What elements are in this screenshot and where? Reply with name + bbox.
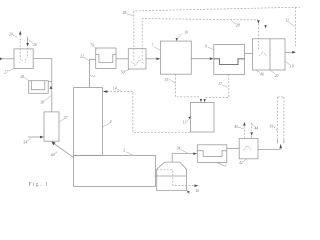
wire box10 to HX8 bbox=[191, 58, 210, 60]
leader 10 bbox=[178, 33, 183, 38]
box12 spray dashes bbox=[259, 52, 266, 56]
arrow into HX34 left bbox=[193, 152, 197, 155]
arrow down label10 into box10 top bbox=[176, 38, 178, 41]
svg-text:50: 50 bbox=[121, 71, 125, 75]
box 12 separator bbox=[253, 39, 286, 70]
tank bbox=[157, 162, 187, 190]
arrow into box10 left bbox=[157, 58, 161, 61]
box 27 spray chamber bbox=[14, 49, 33, 69]
controller box 13 bbox=[190, 102, 214, 132]
wire boxE outlet to riser duct bbox=[258, 148, 281, 150]
heat exchanger 8 bbox=[214, 45, 245, 75]
arrow down control17 onto controller 13 bbox=[204, 99, 206, 102]
svg-text:28: 28 bbox=[236, 24, 240, 28]
svg-text:28: 28 bbox=[20, 75, 24, 79]
leader 8 bbox=[208, 47, 214, 50]
arrow into HX8 left bbox=[210, 57, 214, 60]
box27 spray V bbox=[19, 57, 28, 63]
svg-text:15: 15 bbox=[164, 78, 168, 82]
leader tank corner bbox=[187, 190, 191, 194]
leader 50 bbox=[125, 69, 131, 71]
boxE top inlet dashes bbox=[251, 123, 253, 139]
leader 15 bbox=[169, 79, 176, 84]
leader 40 bbox=[238, 127, 244, 129]
svg-text:13: 13 bbox=[183, 120, 187, 124]
arrow down control15 onto controller 13 bbox=[200, 99, 202, 102]
leader 46 bbox=[256, 70, 260, 72]
wire HX8 to box 12 bbox=[245, 53, 253, 55]
leader 27 bbox=[8, 69, 14, 71]
wire box12 outlet 19 bbox=[285, 51, 292, 53]
svg-text:42: 42 bbox=[239, 161, 243, 165]
riser duct dashed walls bbox=[278, 97, 284, 139]
leader 17 bbox=[222, 85, 227, 88]
riser duct solid stubs bbox=[278, 139, 284, 143]
leader 26 bbox=[29, 39, 33, 43]
svg-text:14: 14 bbox=[113, 86, 117, 90]
arrow on tank corner leader bbox=[187, 190, 190, 193]
dashed control 17 from HX8 bottom to controller 13 bbox=[205, 75, 229, 98]
svg-text:20: 20 bbox=[9, 33, 13, 37]
svg-text:24: 24 bbox=[91, 74, 95, 78]
leader 4 bbox=[103, 123, 110, 126]
arrow up boxE outlet 40 bbox=[243, 122, 246, 126]
svg-text:46: 46 bbox=[260, 73, 264, 77]
arrow up into riser duct bbox=[279, 144, 282, 149]
box27 spray line 20 bbox=[19, 35, 21, 57]
leader 60 bbox=[55, 152, 58, 154]
leader 20b bbox=[270, 70, 275, 74]
dashed control 15 from box10 bottom to controller 13 bbox=[175, 74, 200, 97]
arrow down rail28b into box12 bbox=[257, 20, 260, 24]
dashed tick near label 19b bbox=[274, 127, 277, 131]
leader 14 bbox=[117, 89, 121, 91]
svg-text:4: 4 bbox=[110, 120, 112, 124]
leader 28b bbox=[231, 20, 236, 24]
svg-text:10: 10 bbox=[184, 31, 188, 35]
wire box27 to HX18 and column 16 bbox=[33, 59, 52, 112]
leader 57 bbox=[60, 119, 65, 122]
svg-text:54: 54 bbox=[23, 141, 27, 145]
box27 spray line 26 bbox=[27, 48, 29, 57]
arrow down boxE inlet 44 bbox=[250, 132, 253, 136]
leader 28a bbox=[127, 14, 134, 17]
arrow outlet right of box12 bbox=[292, 51, 296, 54]
wire HX34 to box E bbox=[227, 148, 239, 150]
svg-text:Fig. 1: Fig. 1 bbox=[29, 181, 49, 187]
dashed control 14 controller 13 to duct A bbox=[108, 91, 191, 132]
arrow inlet 26 down bbox=[26, 43, 29, 47]
duct A bbox=[74, 88, 103, 156]
wire arrow into column 16 left bbox=[28, 136, 40, 138]
svg-text:34: 34 bbox=[177, 147, 181, 151]
leader 19 bbox=[285, 62, 290, 65]
wire duct A top to HX70 bbox=[90, 59, 96, 87]
box 10 bbox=[160, 41, 191, 74]
boxE spray dashes bbox=[244, 146, 252, 151]
box B bbox=[74, 156, 156, 187]
svg-text:17: 17 bbox=[218, 82, 223, 86]
wire diagonal 60 from column 16 to box B bbox=[53, 143, 74, 158]
svg-text:8: 8 bbox=[205, 45, 207, 49]
leader hx18 label bbox=[24, 77, 28, 80]
column 16 bbox=[44, 112, 59, 141]
dashed drop into box12 bbox=[257, 24, 259, 52]
svg-text:57: 57 bbox=[64, 116, 69, 120]
heat exchanger 34 bbox=[197, 145, 227, 163]
leader 22 bbox=[84, 57, 89, 61]
wire feed line into box 27 bbox=[0, 58, 14, 60]
svg-text:28: 28 bbox=[123, 11, 127, 15]
wire tank top to HX34 bbox=[172, 154, 193, 163]
leader 18 bbox=[44, 96, 51, 102]
arrow up on pipe to HX18 bbox=[50, 86, 53, 89]
box E bbox=[239, 138, 258, 158]
arrow on leader into controller 13 left bbox=[188, 116, 191, 119]
svg-text:22: 22 bbox=[80, 55, 84, 59]
box 30 bbox=[128, 49, 146, 69]
svg-text:44: 44 bbox=[254, 127, 258, 131]
leader 7 bbox=[154, 47, 160, 51]
svg-text:26: 26 bbox=[33, 43, 37, 47]
leader 42 bbox=[243, 159, 247, 162]
leader 70 bbox=[94, 46, 98, 50]
tank interior dashed level bbox=[157, 170, 194, 186]
leader 54 bbox=[27, 138, 31, 141]
inlet 26 solid drop line bbox=[27, 37, 29, 43]
floating arrow down above box12 bbox=[264, 25, 267, 28]
arrow diagonal into column16 bottom bbox=[52, 141, 56, 145]
leader 13 bbox=[187, 119, 189, 122]
leader 12 bbox=[289, 22, 295, 26]
box30 interior zigzag bbox=[131, 60, 143, 66]
svg-text:19: 19 bbox=[269, 124, 273, 128]
tank liquid level wire from box B bbox=[154, 175, 186, 177]
leader 44 bbox=[251, 123, 255, 128]
heat exchanger 18 bbox=[29, 81, 49, 94]
leader duct stream label bbox=[90, 75, 92, 76]
inlet wedge at left edge bbox=[0, 57, 2, 60]
arrow right tank vapor dashed bbox=[194, 184, 198, 187]
arrow into column16 left bbox=[40, 136, 44, 139]
svg-text:70: 70 bbox=[90, 44, 94, 48]
svg-text:12: 12 bbox=[285, 19, 289, 23]
heat exchanger 70 bbox=[96, 48, 116, 69]
svg-text:2: 2 bbox=[123, 149, 125, 153]
arrow outlet 20 up bbox=[19, 31, 22, 35]
svg-text:60: 60 bbox=[51, 153, 55, 157]
wire box30 to box 10 bbox=[146, 58, 157, 60]
svg-text:19: 19 bbox=[290, 65, 294, 69]
svg-text:16: 16 bbox=[195, 189, 199, 193]
leader hx34 bottom bbox=[217, 162, 226, 166]
svg-text:40: 40 bbox=[234, 125, 238, 129]
leader 2 bbox=[126, 152, 132, 155]
arrow left control14 into duct A bbox=[103, 90, 108, 93]
dashed control rail 28b from box30 right bbox=[142, 19, 258, 60]
svg-text:20: 20 bbox=[275, 74, 279, 78]
leader 34 bbox=[180, 150, 187, 153]
boxE top outlet dashes bbox=[243, 126, 245, 138]
HX8 tube channel bbox=[214, 59, 245, 65]
leader 20 bbox=[13, 35, 18, 38]
wire HX70 to box 30 bbox=[116, 58, 128, 60]
dashed control rail 28a from box30 left bbox=[134, 7, 300, 60]
svg-text:18: 18 bbox=[40, 100, 44, 104]
